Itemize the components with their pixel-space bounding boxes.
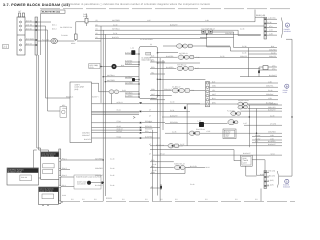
svg-text:FL GLOW: FL GLOW — [227, 110, 235, 113]
svg-text:4T: 4T — [149, 143, 151, 146]
svg-text:YEL: YEL — [151, 71, 154, 74]
svg-text:BLK/WHT: BLK/WHT — [268, 143, 276, 146]
svg-text:2L-40: 2L-40 — [268, 89, 272, 92]
svg-text:WHT (LR): WHT (LR) — [268, 170, 276, 173]
svg-text:BLK/WHT: BLK/WHT — [170, 23, 178, 26]
svg-text:UNIT: UNIT — [243, 161, 247, 164]
svg-text:W-06: W-06 — [260, 173, 264, 176]
svg-text:BLOCK(LH-SIDE): BLOCK(LH-SIDE) — [8, 170, 22, 173]
svg-text:FL MAIN: FL MAIN — [61, 34, 68, 37]
svg-text:GRN/RED: GRN/RED — [225, 32, 234, 35]
svg-text:BAT-2: BAT-2 — [52, 28, 57, 31]
svg-text:( ): Number in parenthesis ( ): ( ): Number in parenthesis ( ) indicates… — [66, 3, 211, 6]
svg-text:2L-38: 2L-38 — [242, 45, 246, 48]
svg-text:A-07: A-07 — [243, 122, 247, 125]
svg-text:WHT/BLK: WHT/BLK — [125, 91, 133, 94]
svg-text:2-2: 2-2 — [235, 198, 238, 201]
svg-text:4T-5: 4T-5 — [272, 64, 275, 67]
svg-text:P/W RELAY: P/W RELAY — [196, 128, 206, 131]
svg-text:GRN/WHT: GRN/WHT — [95, 174, 103, 177]
svg-text:RED/GRN: RED/GRN — [170, 121, 179, 124]
svg-text:2L-38: 2L-38 — [267, 21, 271, 24]
svg-text:4T-6: 4T-6 — [272, 67, 275, 70]
svg-text:WHT/BLU: WHT/BLU — [125, 75, 133, 78]
svg-text:BLK/WHT: BLK/WHT — [170, 114, 178, 117]
svg-text:BLU/WHT: BLU/WHT — [95, 184, 103, 187]
svg-text:4T-1: 4T-1 — [255, 140, 258, 143]
svg-text:4T: 4T — [149, 109, 151, 112]
svg-text:GRN (JR): GRN (JR) — [268, 106, 276, 109]
svg-text:2-2: 2-2 — [175, 198, 178, 201]
svg-text:4T: 4T — [149, 114, 151, 117]
svg-text:D/L RELAY: D/L RELAY — [172, 86, 181, 89]
svg-text:GRN/WHT: GRN/WHT — [164, 88, 172, 91]
svg-text:P/W-2: P/W-2 — [62, 174, 67, 177]
svg-text:2L-40: 2L-40 — [190, 183, 194, 186]
svg-text:GRN/YEL: GRN/YEL — [266, 85, 273, 88]
svg-text:2L-36: 2L-36 — [242, 51, 246, 54]
svg-text:P/W-3: P/W-3 — [62, 167, 67, 170]
svg-text:4T-4: 4T-4 — [269, 25, 272, 28]
svg-text:A: A — [286, 24, 288, 27]
svg-text:2-2: 2-2 — [82, 198, 85, 201]
svg-text:WHT/RED: WHT/RED — [112, 19, 121, 22]
svg-text:C-06: C-06 — [191, 89, 195, 92]
svg-text:ST-01: ST-01 — [117, 120, 122, 123]
svg-text:2L-43: 2L-43 — [110, 157, 114, 160]
svg-text:ACC-01: ACC-01 — [117, 101, 123, 104]
svg-text:BLU/RED: BLU/RED — [268, 140, 276, 143]
svg-text:2L-44: 2L-44 — [110, 167, 114, 170]
svg-text:BAT ST: BAT ST — [26, 42, 32, 45]
svg-text:2L-46: 2L-46 — [110, 184, 114, 187]
svg-text:L-05: L-05 — [147, 19, 150, 22]
svg-text:BAT-1: BAT-1 — [52, 23, 57, 26]
svg-text:OIL PRESS SW: OIL PRESS SW — [60, 26, 72, 29]
svg-text:W-06 (+B): W-06 (+B) — [256, 14, 265, 17]
svg-text:4T: 4T — [151, 185, 153, 188]
svg-text:WHT/RED: WHT/RED — [107, 79, 116, 82]
svg-text:2L-30: 2L-30 — [113, 23, 117, 26]
svg-text:RED/YEL: RED/YEL — [145, 125, 152, 128]
svg-text:BLK/YEL: BLK/YEL — [125, 62, 132, 65]
svg-text:C-05: C-05 — [207, 130, 211, 133]
svg-text:SAFETY: SAFETY — [92, 96, 99, 99]
svg-text:ST-02: ST-02 — [160, 153, 165, 156]
svg-text:GRN/BLK: GRN/BLK — [266, 93, 274, 96]
svg-text:WHT/RED: WHT/RED — [125, 81, 134, 84]
svg-text:BLU/RED: BLU/RED — [166, 66, 174, 69]
svg-text:A/C RELAY: A/C RELAY — [179, 52, 189, 55]
svg-text:C-07: C-07 — [195, 67, 199, 70]
svg-text:2-2: 2-2 — [145, 198, 148, 201]
svg-text:2-2: 2-2 — [160, 198, 163, 201]
svg-text:L-04: L-04 — [131, 47, 134, 50]
svg-text:IG-02: IG-02 — [117, 125, 121, 128]
svg-text:BLK/RED: BLK/RED — [166, 55, 174, 58]
svg-text:BLK/WHT: BLK/WHT — [125, 51, 133, 54]
svg-text:2L-42: 2L-42 — [152, 169, 156, 172]
svg-text:2-2: 2-2 — [205, 198, 208, 201]
svg-text:BLK/YEL: BLK/YEL — [112, 36, 119, 39]
svg-text:4T (LR): 4T (LR) — [270, 102, 276, 105]
svg-text:2L-31: 2L-31 — [170, 109, 174, 112]
svg-text:4T: 4T — [149, 153, 151, 156]
svg-text:FL 1.25B: FL 1.25B — [42, 38, 50, 41]
svg-text:BLK/YEL: BLK/YEL — [84, 138, 91, 141]
svg-text:2L-30: 2L-30 — [170, 100, 174, 103]
svg-text:2L-35: 2L-35 — [172, 131, 176, 134]
svg-text:BAT I/B: BAT I/B — [26, 27, 33, 30]
svg-text:B/T: B/T — [19, 10, 22, 13]
svg-text:P/W-1: P/W-1 — [62, 157, 67, 160]
svg-text:C: C — [286, 181, 288, 184]
svg-text:ST-02: ST-02 — [117, 135, 122, 138]
svg-text:2L-33: 2L-33 — [220, 55, 224, 58]
svg-text:ANT I/B: ANT I/B — [26, 23, 33, 26]
svg-text:BLU/YEL: BLU/YEL — [190, 165, 197, 168]
svg-text:2L-30: 2L-30 — [271, 51, 275, 54]
svg-text:BL/NO MAIN (1/2): BL/NO MAIN (1/2) — [42, 11, 60, 14]
svg-text:GRN/RED: GRN/RED — [95, 167, 104, 170]
svg-text:GRN/WHT: GRN/WHT — [82, 134, 90, 137]
svg-text:ACC-02: ACC-02 — [117, 128, 123, 131]
svg-text:WHT/BLU: WHT/BLU — [112, 28, 120, 31]
svg-text:PUMP: PUMP — [83, 15, 89, 18]
svg-text:BL (CR): BL (CR) — [268, 183, 274, 186]
svg-text:HTR RELAY: HTR RELAY — [177, 63, 187, 66]
svg-text:TAIL/STOP RELAY: TAIL/STOP RELAY — [201, 28, 216, 31]
svg-text:B: B — [286, 86, 288, 89]
svg-text:RED/BLK: RED/BLK — [66, 95, 74, 98]
svg-text:2-2: 2-2 — [71, 198, 74, 201]
svg-text:W-06: W-06 — [62, 194, 66, 197]
svg-text:2L-33: 2L-33 — [270, 114, 274, 117]
svg-text:GRN/RED: GRN/RED — [269, 48, 278, 51]
svg-text:RED/GRN: RED/GRN — [145, 128, 154, 131]
svg-text:3-7. POWER BLOCK DIAGRAM (1: 3-7. POWER BLOCK DIAGRAM (1/3) — [3, 3, 70, 7]
svg-text:WHT: WHT — [151, 93, 155, 96]
svg-text:2-2: 2-2 — [122, 198, 125, 201]
svg-text:UNIT: UNIT — [225, 135, 229, 138]
svg-text:2L-45: 2L-45 — [110, 174, 114, 177]
svg-text:L-08: L-08 — [198, 119, 201, 122]
svg-text:G-101: G-101 — [106, 197, 112, 200]
svg-text:GRN/YEL: GRN/YEL — [240, 55, 247, 58]
svg-text:4T (CR): 4T (CR) — [270, 123, 276, 126]
svg-text:4T: 4T — [149, 121, 151, 124]
svg-text:2-2: 2-2 — [94, 198, 97, 201]
svg-text:D/L-1: D/L-1 — [62, 184, 66, 187]
svg-text:BL (DR): BL (DR) — [268, 179, 274, 182]
svg-text:BLK/WHT: BLK/WHT — [268, 109, 276, 112]
svg-text:2-2: 2-2 — [3, 46, 7, 49]
svg-text:GRN/RED: GRN/RED — [268, 131, 277, 134]
svg-text:(1/2): (1/2) — [90, 66, 94, 69]
svg-text:2L-31: 2L-31 — [113, 32, 117, 35]
svg-text:WHT/RED: WHT/RED — [95, 157, 104, 160]
svg-text:W-04: W-04 — [271, 153, 275, 156]
svg-text:GLOW: GLOW — [255, 134, 261, 137]
svg-text:GRN/YEL: GRN/YEL — [269, 55, 276, 58]
svg-text:WHT/BLU: WHT/BLU — [107, 74, 115, 77]
svg-text:BAT I/B: BAT I/B — [26, 19, 33, 22]
svg-text:1-4B (+B): 1-4B (+B) — [268, 17, 276, 20]
svg-text:YEL: YEL — [212, 89, 215, 92]
svg-text:WHT: WHT — [212, 93, 216, 96]
svg-text:2L-37: 2L-37 — [180, 143, 184, 146]
svg-text:GRN (JR): GRN (JR) — [268, 174, 276, 177]
svg-text:BLK/WHT: BLK/WHT — [243, 152, 251, 155]
svg-text:HORN RELAY: HORN RELAY — [174, 162, 186, 165]
svg-text:C-09: C-09 — [122, 89, 126, 92]
svg-text:GLOW RELAY: GLOW RELAY — [238, 99, 250, 102]
svg-text:(4/4): (4/4) — [75, 88, 79, 91]
svg-text:GLOW: GLOW — [255, 137, 261, 140]
svg-text:BLU/WHT: BLU/WHT — [269, 74, 277, 77]
svg-text:2L-30 WHT/RED: 2L-30 WHT/RED — [140, 38, 153, 41]
svg-text:IG-01: IG-01 — [117, 109, 121, 112]
svg-text:2-2: 2-2 — [255, 198, 258, 201]
svg-text:BAT-02: BAT-02 — [117, 130, 123, 133]
svg-text:ST RELAY: ST RELAY — [156, 144, 165, 147]
svg-text:BLK/RED: BLK/RED — [145, 135, 153, 138]
svg-text:2L-36: 2L-36 — [240, 28, 244, 31]
svg-text:BAT MAIN: BAT MAIN — [26, 37, 35, 40]
svg-text:4T: 4T — [149, 131, 151, 134]
svg-text:BLU/RED: BLU/RED — [125, 94, 133, 97]
svg-text:2L-41: 2L-41 — [152, 163, 156, 166]
svg-text:W-04: W-04 — [206, 166, 210, 169]
svg-text:C-08: C-08 — [196, 56, 200, 59]
